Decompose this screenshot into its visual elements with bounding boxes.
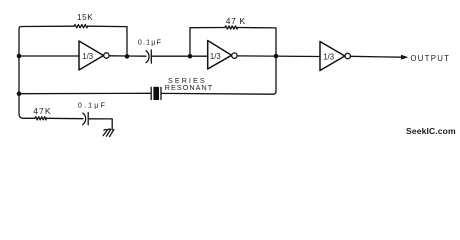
svg-text:47 K: 47 K <box>226 16 246 26</box>
inverter U1 1/3 <box>79 41 104 70</box>
svg-text:1/3: 1/3 <box>323 52 334 61</box>
wire output <box>350 55 401 58</box>
wire left vertical bus <box>19 27 23 119</box>
svg-text:47K: 47K <box>33 106 51 116</box>
capacitor C2 0.1uF <box>83 113 89 125</box>
svg-text:OUTPUT: OUTPUT <box>410 54 450 63</box>
capacitor C1 0.1uF <box>146 50 151 63</box>
node A junction left-main <box>17 54 22 59</box>
wire crystal feedback right drop <box>162 56 276 94</box>
node B junction left-crystal <box>17 91 22 96</box>
wire 47K feedback loop 2 <box>190 28 276 57</box>
wire inverter2 output to inverter3 <box>237 55 320 58</box>
resistor R2 47K zigzag <box>225 26 238 29</box>
crystal Y1 series resonant <box>151 87 161 99</box>
node E junction inverter2 out <box>274 54 279 59</box>
wire main input <box>19 55 79 57</box>
node D junction inverter2 in <box>188 54 193 59</box>
node C junction inverter1 out <box>125 54 130 59</box>
wire bottom RC branch <box>23 118 112 130</box>
wire 15K feedback top <box>22 26 128 56</box>
svg-text:1/3: 1/3 <box>82 52 93 61</box>
wire crystal to left bus <box>19 92 150 94</box>
wire inverter1 output to cap <box>109 55 146 57</box>
svg-text:0.1μF: 0.1μF <box>138 37 162 46</box>
resistor R3 47K zigzag <box>35 117 47 120</box>
ground <box>103 129 114 137</box>
inverter U2 1/3 <box>208 41 232 70</box>
svg-text:0.1μF: 0.1μF <box>78 101 107 110</box>
resistor R1 15K zigzag <box>74 25 88 28</box>
wire cap to inverter2 <box>152 55 208 57</box>
svg-text:SeekIC.com: SeekIC.com <box>406 126 456 136</box>
inverter U3 1/3 <box>320 42 345 71</box>
svg-text:RESONANT: RESONANT <box>165 83 213 92</box>
output arrowhead <box>401 55 408 60</box>
svg-text:15K: 15K <box>77 13 93 22</box>
svg-text:1/3: 1/3 <box>210 52 221 61</box>
